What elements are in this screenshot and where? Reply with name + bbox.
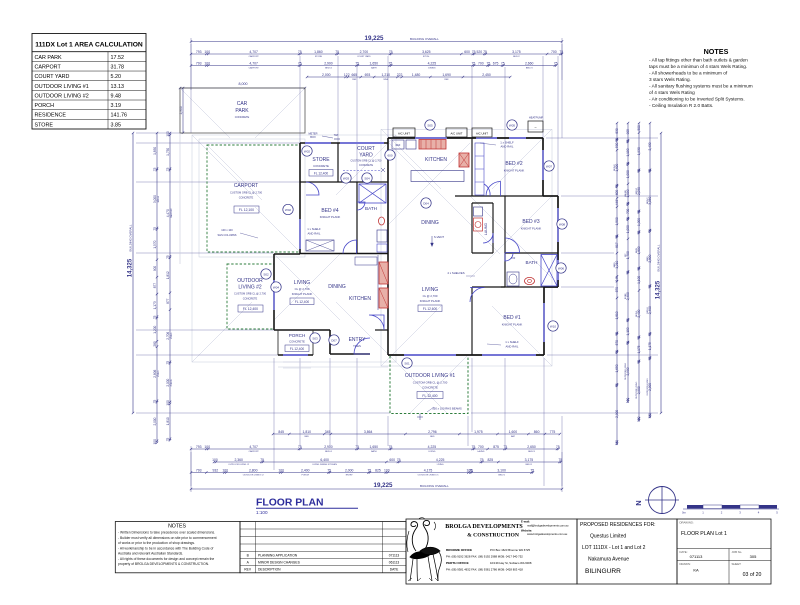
svg-text:LAUND: LAUND — [477, 450, 485, 453]
svg-text:700: 700 — [478, 445, 484, 449]
svg-text:A/C UNIT: A/C UNIT — [476, 131, 488, 135]
svg-text:LIVING: LIVING — [294, 280, 311, 286]
svg-text:W07: W07 — [546, 164, 553, 168]
svg-text:W02: W02 — [304, 149, 311, 153]
svg-text:LIVING: LIVING — [422, 287, 439, 293]
svg-text:LIVING: LIVING — [437, 464, 444, 466]
svg-text:- Builder must verify all dime: - Builder must verify all dimensions on … — [118, 536, 217, 540]
svg-text:4,175: 4,175 — [424, 468, 433, 472]
svg-text:1,810: 1,810 — [303, 430, 312, 434]
svg-text:1,210: 1,210 — [382, 73, 391, 77]
svg-text:2,000: 2,000 — [322, 73, 331, 77]
extension lines from dimensions to plan — [136, 44, 658, 486]
svg-text:932: 932 — [212, 468, 218, 472]
svg-text:STORE: STORE — [312, 157, 330, 163]
svg-text:W02: W02 — [285, 208, 292, 212]
svg-text:75: 75 — [615, 184, 619, 188]
svg-text:N: N — [634, 500, 643, 505]
svg-text:111DX Lot 1 AREA CALCULATION: 111DX Lot 1 AREA CALCULATION — [35, 42, 143, 49]
svg-text:75: 75 — [480, 458, 484, 462]
svg-text:1 x SHELF: 1 x SHELF — [505, 340, 519, 344]
right unit exterior walls — [388, 138, 558, 355]
svg-text:071113: 071113 — [389, 553, 400, 557]
svg-text:BROOME OFFICE: BROOME OFFICE — [446, 548, 472, 552]
svg-text:75: 75 — [558, 458, 562, 462]
svg-text:75: 75 — [153, 315, 157, 319]
svg-text:75: 75 — [397, 458, 401, 462]
right dimension column 1 — [616, 123, 618, 444]
svg-text:2,900: 2,900 — [324, 61, 333, 65]
top dimension row 2 — [191, 53, 562, 55]
svg-text:FL 12,600: FL 12,600 — [423, 307, 437, 311]
svg-text:KNIGHT PLANK: KNIGHT PLANK — [420, 299, 441, 303]
svg-text:3.85: 3.85 — [111, 122, 122, 128]
svg-text:875: 875 — [493, 445, 499, 449]
svg-text:OUTDOOR LIVING #1: OUTDOOR LIVING #1 — [405, 373, 456, 379]
svg-text:2,000: 2,000 — [345, 468, 354, 472]
svg-text:www.brolgadevelopments.com.au: www.brolgadevelopments.com.au — [527, 532, 568, 536]
roof outline lines — [180, 88, 552, 414]
svg-text:4,225: 4,225 — [428, 445, 437, 449]
svg-text:3,100: 3,100 — [497, 468, 506, 472]
svg-text:BED#1: BED#1 — [647, 306, 649, 313]
svg-text:2,660: 2,660 — [525, 61, 534, 65]
svg-text:75: 75 — [637, 210, 641, 214]
svg-text:905: 905 — [626, 129, 630, 135]
svg-text:COURT YARD: COURT YARD — [35, 74, 70, 80]
svg-text:1,810: 1,810 — [615, 311, 619, 319]
svg-text:BED#3: BED#3 — [526, 67, 533, 69]
svg-text:5.20: 5.20 — [111, 74, 122, 80]
svg-text:CARPORT: CARPORT — [249, 66, 260, 69]
svg-text:CARPORT: CARPORT — [170, 208, 173, 219]
svg-text:LIVING DINING KITCHEN: LIVING DINING KITCHEN — [312, 464, 337, 466]
svg-text:75: 75 — [153, 227, 157, 231]
top dimension row 4 — [307, 76, 510, 78]
svg-text:1,000: 1,000 — [637, 218, 641, 226]
svg-text:75: 75 — [166, 438, 170, 442]
svg-text:PARK: PARK — [235, 108, 249, 114]
left dimension: 14,325 building overall — [128, 132, 135, 414]
svg-text:75: 75 — [637, 169, 641, 173]
svg-text:BED: BED — [430, 436, 435, 438]
svg-text:75: 75 — [503, 445, 507, 449]
north arrow — [634, 486, 679, 514]
meter box — [308, 132, 340, 140]
svg-text:TILES: TILES — [353, 344, 361, 348]
svg-text:1,860: 1,860 — [314, 50, 323, 54]
svg-text:75: 75 — [472, 445, 476, 449]
svg-text:LIVING: LIVING — [158, 370, 160, 377]
svg-text:FL 12,100: FL 12,100 — [239, 208, 254, 212]
svg-text:75: 75 — [389, 50, 393, 54]
svg-text:KA: KA — [693, 568, 699, 573]
svg-text:BATH: BATH — [613, 262, 616, 268]
svg-text:1,100: 1,100 — [637, 276, 641, 284]
svg-text:75: 75 — [637, 360, 641, 364]
svg-text:100: 100 — [166, 400, 170, 406]
svg-text:1,650: 1,650 — [370, 61, 379, 65]
svg-text:KITCH.: KITCH. — [423, 56, 430, 58]
svg-text:75: 75 — [530, 468, 534, 472]
svg-text:1,200: 1,200 — [153, 325, 157, 333]
svg-text:Nakamura Avenue: Nakamura Avenue — [588, 557, 629, 563]
svg-text:CARPORT: CARPORT — [249, 450, 260, 453]
svg-text:CAR: CAR — [237, 101, 248, 107]
svg-text:KNIGHT PLANK: KNIGHT PLANK — [292, 292, 313, 296]
svg-text:OUTDOOR LIVING #2: OUTDOOR LIVING #2 — [228, 464, 250, 466]
svg-text:CUSTOM ORB CL @ 2,700: CUSTOM ORB CL @ 2,700 — [230, 191, 263, 195]
svg-text:- All sanitary flushing system: - All sanitary flushing systems must be … — [649, 84, 753, 89]
porch steps and paving — [278, 362, 388, 368]
svg-text:100 x 100: 100 x 100 — [221, 228, 233, 232]
svg-text:Website:: Website: — [521, 528, 532, 532]
svg-text:75: 75 — [615, 138, 619, 142]
svg-text:75: 75 — [626, 270, 630, 274]
svg-text:JOB No.: JOB No. — [732, 550, 743, 554]
svg-text:520: 520 — [476, 50, 482, 54]
svg-text:10/139 Hay St, Subiaco WA 6008: 10/139 Hay St, Subiaco WA 6008 — [490, 561, 532, 565]
svg-text:1,480: 1,480 — [412, 73, 421, 77]
svg-text:100: 100 — [212, 458, 218, 462]
svg-text:ROBE: ROBE — [625, 293, 627, 299]
svg-text:1,100: 1,100 — [626, 327, 630, 335]
svg-text:3,175: 3,175 — [525, 458, 534, 462]
svg-text:PORCH: PORCH — [289, 333, 306, 338]
door arcs — [306, 182, 520, 355]
kitchen fixtures (right unit) — [392, 140, 484, 196]
title block: logo box — [406, 518, 577, 584]
svg-text:CONCRETE: CONCRETE — [235, 115, 250, 119]
svg-text:YARD: YARD — [359, 153, 373, 159]
svg-text:600: 600 — [615, 190, 619, 196]
svg-text:825: 825 — [375, 468, 381, 472]
svg-text:75: 75 — [335, 50, 339, 54]
svg-text:OUTDOOR LIVING #1: OUTDOOR LIVING #1 — [418, 474, 440, 476]
svg-text:2,800: 2,800 — [249, 468, 258, 472]
svg-text:FL 12,400: FL 12,400 — [243, 307, 258, 311]
svg-text:W03: W03 — [343, 176, 350, 180]
svg-text:100: 100 — [615, 440, 619, 446]
drawing title — [256, 498, 358, 516]
svg-text:SHEET:: SHEET: — [732, 562, 742, 566]
svg-text:4,707: 4,707 — [249, 61, 258, 65]
svg-text:75: 75 — [637, 230, 641, 234]
svg-text:A/C UNIT: A/C UNIT — [451, 131, 463, 135]
svg-text:877: 877 — [166, 298, 170, 304]
svg-text:- Air conditioning to be Inver: - Air conditioning to be Inverted Split … — [649, 96, 745, 101]
svg-text:75: 75 — [166, 361, 170, 365]
svg-text:KNIGHT PLANK: KNIGHT PLANK — [504, 169, 525, 173]
svg-text:S04: S04 — [364, 176, 370, 180]
svg-text:75: 75 — [469, 468, 473, 472]
svg-text:100: 100 — [222, 468, 228, 472]
svg-text:2,700: 2,700 — [360, 50, 369, 54]
svg-text:DINING: DINING — [328, 284, 346, 290]
right dimension column 3 — [638, 123, 640, 420]
svg-text:BATH: BATH — [371, 450, 377, 453]
svg-text:PH: (08) 9381 4632 FAX: (08): PH: (08) 9381 4632 FAX: (08) 9381 2786 M… — [446, 568, 523, 572]
svg-text:PROPOSED RESIDENCES FOR:: PROPOSED RESIDENCES FOR: — [580, 522, 656, 528]
outdoor living 1 — [390, 356, 468, 420]
svg-text:2,796: 2,796 — [428, 430, 437, 434]
svg-text:600: 600 — [389, 458, 395, 462]
svg-text:75: 75 — [367, 468, 371, 472]
top dimension: 19,225 building overall — [190, 35, 563, 90]
svg-text:122: 122 — [344, 73, 350, 77]
svg-text:CONCRETE: CONCRETE — [313, 164, 329, 168]
svg-text:P/O Box 1623 Broome WA 6725: P/O Box 1623 Broome WA 6725 — [490, 548, 530, 552]
svg-text:2,450: 2,450 — [482, 73, 491, 77]
svg-text:500: 500 — [615, 142, 619, 148]
svg-text:BATH: BATH — [526, 260, 538, 265]
svg-text:825: 825 — [487, 458, 493, 462]
svg-text:75: 75 — [637, 267, 641, 271]
svg-text:BATH: BATH — [635, 247, 638, 253]
svg-text:BILINGURR: BILINGURR — [585, 568, 621, 575]
svg-text:BED#4: BED#4 — [325, 67, 332, 69]
svg-text:75: 75 — [554, 61, 558, 65]
svg-text:100: 100 — [166, 131, 170, 137]
svg-text:AND RAIL: AND RAIL — [501, 145, 514, 149]
svg-text:75: 75 — [389, 445, 393, 449]
svg-text:W08: W08 — [559, 222, 566, 226]
svg-text:BOX: BOX — [310, 135, 316, 139]
svg-text:W06: W06 — [558, 266, 565, 270]
svg-text:100: 100 — [626, 398, 630, 404]
bathroom fixtures (right unit) — [507, 255, 557, 287]
svg-text:860: 860 — [534, 430, 540, 434]
svg-text:75: 75 — [626, 139, 630, 143]
bottom dimension row 1 — [191, 448, 559, 450]
svg-text:19,225: 19,225 — [365, 35, 384, 42]
svg-text:75: 75 — [483, 50, 487, 54]
svg-text:BED#1: BED#1 — [526, 464, 533, 466]
svg-text:- Written Dimensions to take p: - Written Dimensions to take precedence … — [118, 531, 215, 535]
svg-text:75: 75 — [626, 202, 630, 206]
svg-text:BED#2: BED#2 — [614, 164, 616, 171]
left unit exterior and interior walls — [274, 138, 388, 355]
svg-text:BUILDING OVERALL: BUILDING OVERALL — [410, 37, 439, 41]
title block: revision table — [240, 522, 406, 573]
svg-text:222: 222 — [397, 73, 403, 77]
svg-text:mail@brolgadevelopments.com.au: mail@brolgadevelopments.com.au — [527, 523, 569, 527]
svg-text:0m: 0m — [682, 511, 687, 515]
svg-text:BED #3: BED #3 — [522, 219, 539, 225]
svg-text:75: 75 — [637, 335, 641, 339]
svg-text:DATE: DATE — [390, 568, 399, 572]
bathroom fixtures (left unit) — [359, 184, 387, 252]
svg-text:817: 817 — [615, 242, 619, 248]
svg-text:NOTES: NOTES — [168, 524, 186, 530]
svg-text:75: 75 — [298, 445, 302, 449]
svg-text:RESIDENCE: RESIDENCE — [35, 113, 67, 119]
svg-text:75: 75 — [626, 341, 630, 345]
svg-text:FL 12,400: FL 12,400 — [295, 300, 309, 304]
svg-text:CARPORT: CARPORT — [249, 55, 260, 58]
svg-text:W04: W04 — [273, 285, 280, 289]
svg-text:DESCRIPTION: DESCRIPTION — [258, 568, 281, 572]
svg-text:W10: W10 — [550, 324, 557, 328]
svg-text:775: 775 — [550, 430, 556, 434]
svg-text:LIVING: LIVING — [171, 332, 173, 339]
svg-text:DINING: DINING — [421, 220, 439, 226]
svg-text:13.13: 13.13 — [111, 84, 125, 90]
bottom dimension: 19,225 building overall — [190, 452, 563, 492]
svg-text:4,707: 4,707 — [249, 50, 258, 54]
svg-text:1,175: 1,175 — [637, 345, 641, 353]
svg-text:CUSTOM ORB CL @ 2,700: CUSTOM ORB CL @ 2,700 — [234, 292, 267, 296]
svg-text:BED#4: BED#4 — [325, 451, 332, 453]
svg-text:700: 700 — [551, 50, 557, 54]
svg-text:CL @ 2,700: CL @ 2,700 — [295, 287, 310, 291]
svg-text:CARPORT: CARPORT — [234, 183, 258, 189]
svg-text:AND RAIL: AND RAIL — [308, 232, 321, 236]
svg-text:4,225: 4,225 — [428, 61, 437, 65]
svg-text:1,930: 1,930 — [637, 147, 641, 155]
kitchen fixtures (left unit) — [355, 255, 388, 310]
svg-text:CUSTOM ORB CL @ 2,700: CUSTOM ORB CL @ 2,700 — [413, 381, 448, 385]
svg-text:1,000: 1,000 — [626, 170, 630, 178]
svg-text:LIVING #2: LIVING #2 — [238, 285, 262, 291]
svg-text:FL 12,400: FL 12,400 — [314, 172, 328, 176]
svg-text:830: 830 — [615, 128, 619, 134]
windows — [274, 138, 558, 355]
svg-text:LIVING: LIVING — [429, 451, 436, 453]
svg-text:WC: WC — [625, 253, 627, 257]
carport — [207, 145, 300, 252]
svg-text:FL 12,400: FL 12,400 — [290, 347, 304, 351]
right dimension column 4 — [649, 123, 651, 417]
svg-text:- Ceiling Insulation R 2.0 Bat: - Ceiling Insulation R 2.0 Batts. — [649, 103, 713, 108]
svg-text:2,430: 2,430 — [648, 142, 652, 150]
left dimension column 2 — [156, 133, 158, 443]
svg-text:693: 693 — [365, 73, 371, 77]
bed4 robe — [300, 219, 334, 251]
room labels — [285, 141, 541, 352]
title block: notes box — [115, 522, 240, 573]
svg-text:LAUND: LAUND — [624, 190, 627, 197]
svg-text:75: 75 — [298, 50, 302, 54]
svg-text:- All workmanship to be in acc: - All workmanship to be in accordance wi… — [118, 546, 213, 550]
svg-text:75: 75 — [626, 162, 630, 166]
svg-text:700: 700 — [511, 256, 516, 260]
svg-text:31.78: 31.78 — [111, 64, 125, 70]
left dimension column 4 (car park) — [182, 88, 184, 133]
svg-text:75: 75 — [355, 445, 359, 449]
svg-text:14,325: 14,325 — [128, 258, 134, 277]
svg-text:TAP: TAP — [334, 134, 339, 137]
svg-text:HEATPUMP: HEATPUMP — [529, 116, 543, 120]
svg-text:KNIGHT PLANK: KNIGHT PLANK — [502, 323, 523, 327]
svg-text:BED#3: BED#3 — [636, 187, 638, 194]
svg-text:FLOOR PLAN: FLOOR PLAN — [256, 498, 324, 509]
svg-text:BED#1: BED#1 — [636, 310, 638, 317]
svg-text:75: 75 — [648, 356, 652, 360]
svg-text:CUSTOM ORB CL @ 2,700: CUSTOM ORB CL @ 2,700 — [351, 160, 382, 163]
svg-text:3,000: 3,000 — [153, 195, 157, 203]
svg-text:17.52: 17.52 — [111, 55, 125, 61]
svg-text:75: 75 — [648, 332, 652, 336]
general notes — [649, 47, 753, 108]
svg-text:1,100: 1,100 — [626, 148, 630, 156]
svg-text:1,650: 1,650 — [615, 364, 619, 372]
svg-text:071113: 071113 — [690, 554, 704, 559]
svg-text:061113: 061113 — [389, 561, 400, 565]
svg-text:BATH: BATH — [371, 66, 377, 69]
svg-text:675: 675 — [493, 61, 499, 65]
svg-text:1 x SHELF: 1 x SHELF — [307, 227, 321, 231]
svg-text:CAR PARK: CAR PARK — [35, 55, 63, 61]
svg-text:PERTH OFFICE: PERTH OFFICE — [446, 561, 469, 565]
svg-text:PLANNING APPLICATION: PLANNING APPLICATION — [258, 553, 298, 557]
svg-text:OUTDOOR LIVING: OUTDOOR LIVING — [636, 381, 638, 399]
outdoor living 2 — [227, 264, 274, 329]
svg-text:of works or prior to the produ: of works or prior to the production of s… — [118, 541, 195, 545]
svg-text:1,500: 1,500 — [615, 217, 619, 225]
svg-text:4 x SHELVES: 4 x SHELVES — [447, 271, 464, 275]
svg-text:345: 345 — [325, 430, 331, 434]
svg-text:1,690: 1,690 — [442, 73, 451, 77]
svg-text:75: 75 — [153, 167, 157, 171]
area calculation table — [32, 34, 146, 130]
svg-text:PH: (08) 9192 3628 FAX: (08): PH: (08) 9192 3628 FAX: (08) 9192 2988 M… — [446, 555, 523, 559]
svg-text:PORCH: PORCH — [171, 378, 173, 386]
svg-text:NOTES: NOTES — [704, 47, 729, 56]
svg-text:BATH: BATH — [365, 206, 377, 211]
svg-text:BED: BED — [305, 436, 310, 438]
svg-text:LAUND: LAUND — [484, 223, 488, 236]
svg-text:75: 75 — [166, 167, 170, 171]
svg-text:OUTDOOR: OUTDOOR — [237, 278, 263, 284]
svg-text:2,650: 2,650 — [527, 445, 536, 449]
bottom dimension row 2 — [214, 461, 561, 463]
svg-text:2,900: 2,900 — [324, 445, 333, 449]
svg-text:75: 75 — [298, 61, 302, 65]
svg-text:& CONSTRUCTION: & CONSTRUCTION — [467, 533, 519, 539]
svg-text:75: 75 — [355, 61, 359, 65]
svg-text:OUTDOOR LIVING #2: OUTDOOR LIVING #2 — [243, 474, 265, 476]
window/door tag circles — [261, 120, 567, 368]
svg-text:KNIGHT PLANK: KNIGHT PLANK — [320, 215, 341, 219]
svg-text:2,900: 2,900 — [615, 410, 619, 418]
svg-text:CONCRETE: CONCRETE — [243, 297, 258, 301]
car park width dimension 8,000 — [179, 82, 306, 89]
svg-text:75: 75 — [389, 61, 393, 65]
svg-text:BED #2: BED #2 — [505, 161, 522, 167]
svg-text:2,706: 2,706 — [166, 332, 170, 340]
svg-text:877: 877 — [153, 283, 157, 289]
svg-text:STORE: STORE — [315, 56, 323, 58]
lot boundary light line — [179, 133, 181, 264]
svg-text:8,000: 8,000 — [239, 82, 248, 86]
svg-text:600: 600 — [464, 50, 470, 54]
svg-text:1,750: 1,750 — [166, 148, 170, 156]
svg-text:100: 100 — [637, 416, 641, 422]
svg-text:MINOR DESIGN CHANGES: MINOR DESIGN CHANGES — [258, 561, 301, 565]
svg-text:448: 448 — [615, 200, 619, 206]
svg-text:S01: S01 — [404, 361, 410, 365]
svg-text:A/C UNIT: A/C UNIT — [398, 131, 410, 135]
svg-text:75: 75 — [472, 61, 476, 65]
svg-text:100: 100 — [204, 445, 210, 449]
svg-text:793: 793 — [196, 61, 202, 65]
svg-text:2,360: 2,360 — [234, 458, 243, 462]
svg-text:100: 100 — [648, 413, 652, 419]
svg-text:DINING: DINING — [428, 67, 436, 69]
svg-text:ENTRY: ENTRY — [346, 474, 354, 476]
svg-text:- All tap fittings other than: - All tap fittings other than bath outle… — [649, 58, 748, 63]
